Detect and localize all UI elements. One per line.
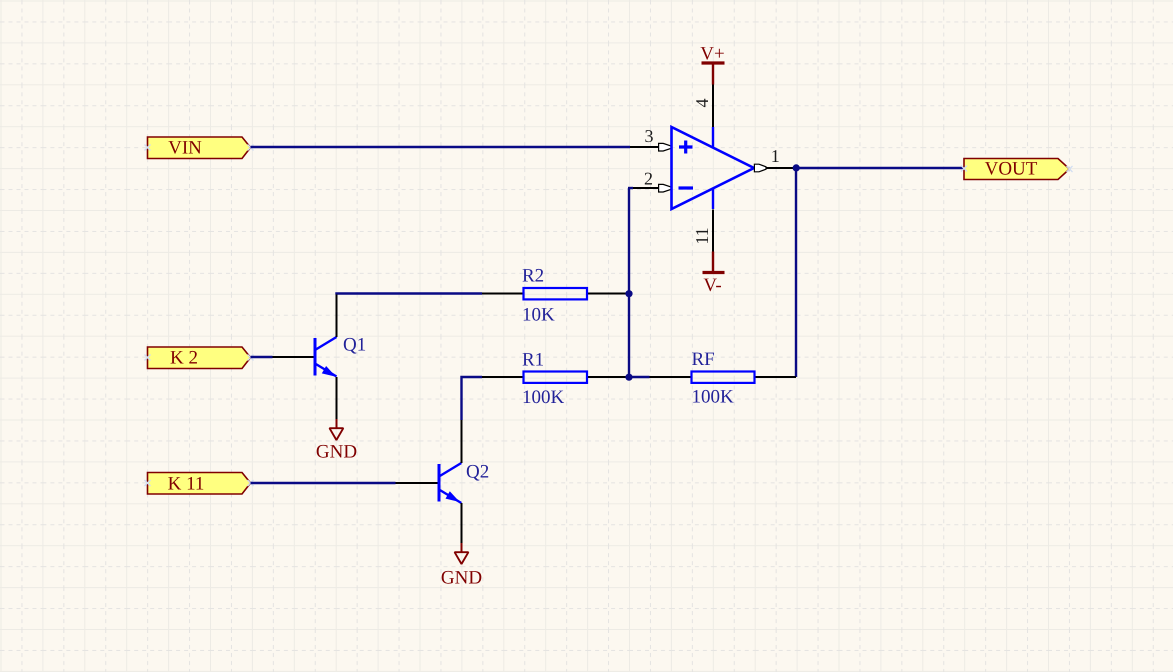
svg-text:Q1: Q1 [343,335,366,356]
wire RF left [629,376,650,378]
svg-text:VIN: VIN [168,138,202,159]
node R2 right junction [625,290,632,297]
svg-text:10K: 10K [522,305,555,326]
svg-text:Q2: Q2 [466,462,489,483]
op-amp U1 pin 11 [692,210,713,252]
ground GND Q1 [316,419,357,462]
port VOUT [964,159,1070,180]
port K2 [148,347,251,369]
node R1 right junction [625,374,632,381]
svg-text:RF: RF [692,349,715,370]
wire R2 left [337,294,483,295]
power V+ [700,43,724,84]
svg-text:V+: V+ [700,43,724,64]
svg-text:1: 1 [771,146,780,166]
node VOUT connection cross [961,166,1073,173]
svg-text:V-: V- [703,275,721,296]
port VIN [148,137,251,159]
resistor R2 [482,266,629,326]
op-amp U1 pin 1 [754,146,796,172]
svg-text:100K: 100K [522,387,565,408]
transistor Q1 [273,295,367,420]
wire output to VOUT [796,167,964,169]
power V- [703,252,725,297]
port K11 [148,473,251,495]
svg-text:R1: R1 [522,350,544,371]
wire VIN to pin3 [251,146,631,148]
svg-text:2: 2 [644,169,653,189]
wire K2 to Q1 base [251,356,273,358]
svg-text:100K: 100K [692,387,735,408]
svg-text:11: 11 [692,227,712,244]
ground GND Q2 [441,543,482,588]
node VIN connection cross [145,145,254,151]
svg-text:VOUT: VOUT [985,159,1038,180]
transistor Q2 [396,420,490,543]
svg-text:R2: R2 [522,266,544,287]
wire R1 left [462,377,483,420]
svg-text:K 2: K 2 [170,348,198,369]
op-amp U1 pin 3 [630,126,671,151]
svg-text:GND: GND [441,567,482,588]
svg-text:4: 4 [692,99,712,108]
node output junction [793,164,800,171]
svg-text:K 11: K 11 [168,474,205,495]
svg-text:3: 3 [645,126,654,146]
wire feedback vertical [795,168,797,377]
svg-text:GND: GND [316,441,357,462]
wire pin2 net vertical [628,188,630,377]
op-amp U1 pin 2 [628,169,671,193]
op-amp U1 body [672,127,755,209]
op-amp U1 pin 4 [692,85,713,128]
resistor R1 [482,350,629,408]
resistor RF [650,349,797,408]
wire K11 to Q2 base [251,482,396,484]
node K11 connection cross [145,480,254,486]
node K2 connection cross [145,355,254,361]
